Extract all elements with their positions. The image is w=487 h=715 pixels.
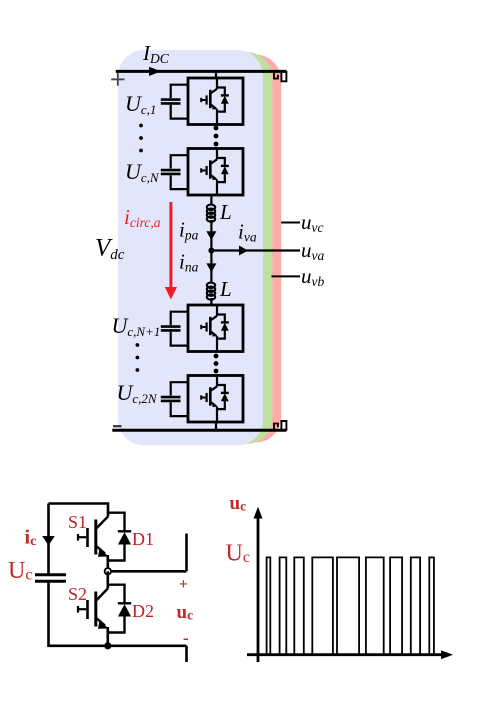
transistor S1 <box>78 517 108 555</box>
DC+ top rail <box>116 70 287 73</box>
svg-text:S1: S1 <box>68 512 87 532</box>
rail continuation hook 1 (top) <box>274 71 278 78</box>
submodule SM2 <box>161 149 243 196</box>
diode D1 <box>108 513 131 561</box>
S2 emitter wire to bottom <box>107 627 110 646</box>
output line u_vc <box>281 222 300 224</box>
rail continuation hook 2 (bottom) <box>281 421 286 431</box>
wire inductor to node with i_pa arrow <box>210 220 212 251</box>
capacitor U_c <box>35 575 66 582</box>
phase output wire u_va with i_va arrow <box>211 249 300 251</box>
svg-text:D2: D2 <box>132 601 154 621</box>
phase-c background stripe (pink) <box>126 55 281 443</box>
svg-text:ic: ic <box>25 527 37 550</box>
svg-text:uvc: uvc <box>301 210 323 235</box>
upper arm inductor L <box>207 205 215 222</box>
svg-text:L: L <box>219 277 232 301</box>
rail continuation hook 2 (top) <box>281 71 286 81</box>
ellipsis dots labels bottom <box>136 343 140 372</box>
left rail lower segment <box>47 582 50 647</box>
wire SM2 to upper arm inductor <box>210 195 212 205</box>
svg-text:uvb: uvb <box>301 264 324 289</box>
wire node to lower inductor with i_na arrow <box>210 251 212 284</box>
DC- bottom rail <box>112 429 286 432</box>
i_c arrow <box>42 536 55 546</box>
left rail upper segment <box>47 504 50 575</box>
midpoint output wire <box>111 570 187 573</box>
svg-text:uc: uc <box>230 493 247 514</box>
wire SM4 to bottom rail <box>215 422 217 430</box>
output line u_vb <box>272 275 301 277</box>
top wire of cell <box>49 504 109 517</box>
submodule SM4 <box>161 376 243 423</box>
submodule SM3 <box>161 305 243 352</box>
y axis <box>257 516 260 662</box>
S1 emitter wire to midpoint <box>107 555 110 569</box>
PWM pulse train <box>267 557 434 654</box>
svg-text:uc: uc <box>177 602 194 623</box>
wire inductor to SM3 <box>210 298 212 305</box>
chain dots SM3-SM4 <box>214 354 219 374</box>
svg-text:L: L <box>219 200 232 224</box>
submodule SM1 <box>161 78 243 125</box>
circulating current arrow i_circ,a <box>165 202 177 300</box>
rail continuation hook 1 (bottom) <box>274 424 278 431</box>
wire rail to SM1 <box>215 71 217 78</box>
svg-text:uva: uva <box>301 238 324 263</box>
svg-text:D1: D1 <box>132 529 154 549</box>
svg-text:S2: S2 <box>68 584 87 604</box>
phase-b background stripe (green) <box>122 52 272 444</box>
bottom node (junction dot) <box>104 642 111 649</box>
x axis <box>247 653 443 656</box>
node a (junction dot) <box>208 248 214 254</box>
svg-text:Uc: Uc <box>226 541 250 567</box>
output + terminal bar <box>185 534 188 572</box>
svg-text:-: - <box>183 629 189 648</box>
plus terminal <box>111 73 124 86</box>
svg-text:Uc: Uc <box>8 558 32 584</box>
arrow I_DC on rail <box>149 67 161 76</box>
midpoint node (open circle) <box>105 568 111 574</box>
ellipsis dots labels top <box>139 124 143 153</box>
lower arm inductor L <box>207 283 215 300</box>
bottom wire <box>49 644 187 647</box>
minus terminal <box>113 425 122 427</box>
phase-a background panel (lavender) <box>118 50 263 446</box>
chain dots SM1-SM2 <box>214 126 219 147</box>
svg-text:IDC: IDC <box>142 41 170 66</box>
diode D2 <box>108 585 131 633</box>
output - terminal bar <box>185 646 188 662</box>
svg-text:+: + <box>179 576 188 593</box>
transistor S2 <box>78 571 108 626</box>
